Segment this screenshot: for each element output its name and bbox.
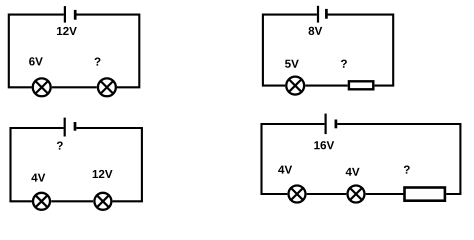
value label 8V for battery B2 [309,27,323,35]
circuit 3: wire from battery negative terminal, left side and bottom-left to lamp L4 [11,128,64,201]
battery B4 (cell, 16V) [326,114,336,135]
lamp L7 (4V) [348,186,365,203]
battery B3 (cell, unknown voltage) [65,118,75,137]
circuit 1: wire from battery positive terminal, right side and bottom-right to lamp L2 [77,15,140,88]
value label 16V for battery B4 [314,141,334,149]
circuit 4: wire between lamp L6 and lamp L7 [307,193,347,195]
lamp L6 (4V) [289,186,306,203]
value label 6V for lamp L1 [29,57,43,65]
value label 4V for lamp L4 [31,174,45,182]
value label ? for battery B3 [57,142,63,150]
lamp L2 (unknown voltage) [98,78,116,96]
circuit 4: wire between lamp L7 and resistor R2 [366,193,404,195]
value label 12V for lamp L5 [93,170,113,178]
value label ? for lamp L2 [95,58,101,66]
lamp L5 (12V) [94,193,111,210]
value label 4V for lamp L6 [278,166,292,174]
value label 4V for lamp L7 [346,168,360,176]
value label 12V for battery B1 [57,27,77,35]
circuit 4: wire from battery positive terminal, right side and bottom-right to resistor R2 [337,124,460,194]
circuit 1: wire between lamp L1 and lamp L2 [52,86,97,88]
lamp L4 (4V) [33,193,50,210]
circuit 4: wire from battery negative terminal, left side and bottom-left to lamp L6 [262,124,325,194]
battery B2 (cell, 8V) [318,6,326,23]
lamp L3 (5V) [286,77,304,95]
circuit 3: wire between lamp L4 and lamp L5 [51,200,93,202]
circuit 2: wire between lamp L3 and resistor R1 [305,85,347,87]
lamp L1 (6V) [33,78,51,96]
resistor R2 (unknown) [405,188,445,201]
circuit 2: wire from battery negative terminal, left side and bottom-left to lamp L3 [263,15,317,86]
value label 5V for lamp L3 [285,60,299,68]
value label ? for resistor R1 [341,60,347,68]
battery B1 (cell, 12V) [65,6,75,23]
resistor R1 (unknown) [349,81,373,89]
circuit 1: wire from battery negative terminal, left side and bottom-left to lamp L1 [9,15,64,88]
value label ? for resistor R2 [404,166,410,174]
circuit 2: wire from battery positive terminal, right side and bottom-right to resistor R1 [328,15,394,86]
circuit 3: wire from battery positive terminal, right side and bottom-right to lamp L5 [76,128,142,201]
